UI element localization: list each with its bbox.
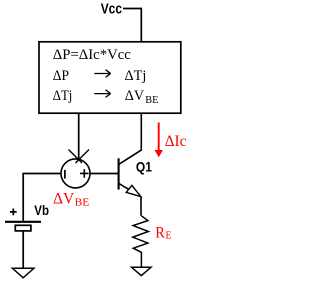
svg-text:ΔIc: ΔIc: [165, 133, 187, 150]
svg-text:ΔTj: ΔTj: [125, 68, 147, 84]
svg-text:Vb: Vb: [34, 203, 49, 218]
svg-text:Vcc: Vcc: [101, 2, 122, 18]
svg-text:BE: BE: [145, 95, 158, 106]
svg-text:Q1: Q1: [136, 159, 152, 174]
svg-text:ΔP=ΔIc*Vcc: ΔP=ΔIc*Vcc: [53, 47, 131, 63]
svg-text:ΔV: ΔV: [53, 191, 75, 208]
svg-text:ΔTj: ΔTj: [53, 88, 73, 104]
svg-text:R: R: [155, 224, 165, 241]
svg-text:BE: BE: [75, 197, 90, 208]
svg-text:ΔV: ΔV: [125, 88, 145, 104]
svg-text:E: E: [166, 230, 172, 241]
svg-text:ΔP: ΔP: [53, 68, 69, 84]
